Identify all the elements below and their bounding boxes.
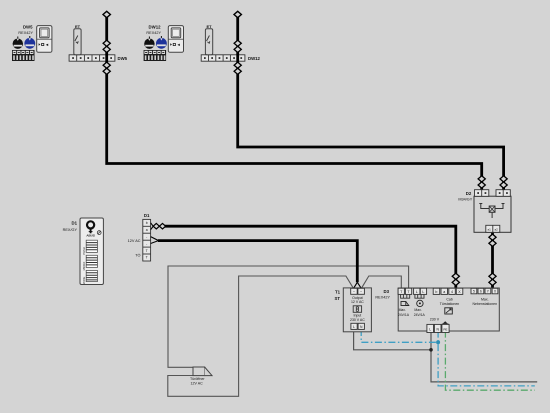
svg-text:DW12: DW12 bbox=[149, 25, 162, 30]
svg-text:a2: a2 bbox=[495, 227, 499, 231]
relay D2 buzzer symbol bbox=[479, 204, 504, 219]
svg-text:D3: D3 bbox=[384, 289, 390, 294]
key symbol bbox=[87, 221, 94, 228]
svg-text:Max.: Max. bbox=[399, 308, 406, 312]
svg-text:◄: ◄ bbox=[45, 42, 49, 47]
svg-text:~: ~ bbox=[360, 290, 362, 294]
wire: N blue dash-dot from T1 to junction bbox=[361, 329, 438, 342]
svg-text:-: - bbox=[146, 235, 147, 239]
terminal strip DW12 bbox=[201, 55, 245, 61]
svg-text:-: - bbox=[146, 242, 147, 246]
screw bbox=[97, 231, 101, 235]
svg-text:D2: D2 bbox=[466, 191, 472, 196]
door opener Türöffner symbol bbox=[193, 367, 212, 376]
cable marker twin diamonds above D2 right bbox=[500, 176, 507, 182]
svg-text:DW12: DW12 bbox=[248, 56, 261, 61]
wire: mains L from T1 to junction bbox=[354, 329, 431, 350]
cable marker twin diamonds above D3 group3 bbox=[489, 273, 496, 279]
svg-text:L: L bbox=[416, 290, 418, 294]
cable marker twin diamonds DW5 below strip bbox=[103, 62, 110, 68]
D3 mains terminals L N PE bbox=[427, 324, 449, 332]
transformer T1 secondary terminals bbox=[351, 288, 365, 294]
cable marker twin diamonds DW12 below strip bbox=[234, 62, 241, 68]
junction dot N bbox=[436, 340, 440, 344]
svg-text:Cab: Cab bbox=[446, 297, 452, 301]
svg-text:Türöffner: Türöffner bbox=[190, 377, 205, 381]
relay D2 top terminals pair 1 bbox=[475, 190, 489, 197]
cable marker diamond top DW5 bbox=[103, 11, 110, 17]
svg-text:PE: PE bbox=[443, 328, 447, 332]
svg-text:L: L bbox=[353, 325, 355, 329]
svg-text:12V AC: 12V AC bbox=[128, 239, 141, 243]
cable DW5 to D2 (thick) bbox=[107, 15, 482, 191]
relay D2 top terminals pair 2 bbox=[496, 190, 510, 197]
svg-text:~: ~ bbox=[353, 290, 355, 294]
svg-text:12 V AC: 12 V AC bbox=[351, 300, 364, 304]
svg-text:Output: Output bbox=[352, 296, 363, 300]
door station DW5 knob black bbox=[13, 37, 23, 49]
cable marker twin diamonds DW12 above strip bbox=[234, 40, 241, 46]
svg-text:ET: ET bbox=[75, 24, 81, 29]
cable marker twin diamonds above D3 group2 bbox=[452, 273, 459, 279]
svg-text:Max.: Max. bbox=[414, 308, 421, 312]
svg-text:T: T bbox=[146, 256, 148, 260]
svg-text:ABUS: ABUS bbox=[86, 233, 95, 237]
slat group 2 bbox=[82, 255, 97, 270]
svg-text:230 V: 230 V bbox=[430, 317, 440, 321]
push button ET2 bbox=[205, 24, 212, 55]
svg-text:T1: T1 bbox=[335, 290, 341, 295]
svg-text:D1: D1 bbox=[144, 213, 150, 218]
relay D2 housing bbox=[474, 196, 511, 232]
svg-text:a: a bbox=[443, 290, 445, 294]
V split into T1 secondary terminals bbox=[353, 282, 361, 288]
svg-text:L: L bbox=[429, 328, 431, 332]
cable marker diamond top DW12 bbox=[234, 11, 241, 17]
module D1 housing bbox=[80, 218, 103, 285]
relay D2 bottom terminals bbox=[486, 225, 500, 232]
cable D1 12V AC to T1 (thick) bbox=[158, 241, 357, 283]
svg-text:DW5: DW5 bbox=[118, 56, 128, 61]
svg-text:REX42Y: REX42Y bbox=[146, 31, 161, 35]
door station DW12 knob black bbox=[144, 37, 154, 49]
svg-text:PUSH: PUSH bbox=[82, 247, 86, 254]
svg-text:ZONE: ZONE bbox=[82, 277, 86, 284]
svg-text:Nebenstationen: Nebenstationen bbox=[473, 302, 498, 306]
svg-text:Türstationen: Türstationen bbox=[440, 302, 460, 306]
wire: L from D3 down and right bbox=[431, 331, 537, 382]
D3 lamp icon bbox=[417, 300, 423, 306]
svg-text:L: L bbox=[422, 290, 424, 294]
svg-text:b: b bbox=[435, 290, 437, 294]
terminal strip DW5 bbox=[69, 55, 115, 61]
svg-text:b: b bbox=[480, 290, 482, 294]
svg-text:REX42Y: REX42Y bbox=[375, 296, 390, 300]
wire: PE green dash-dot from D3 down and right bbox=[445, 331, 534, 391]
svg-text:24V/1A: 24V/1A bbox=[414, 313, 426, 317]
wire: door opener loop inner right (D3 T1 to T1 secondary right) bbox=[361, 276, 401, 289]
wire: N blue from D3 down and right bbox=[438, 331, 535, 386]
D3 terminal group ba4X bbox=[433, 288, 463, 294]
wire: door opener loop outer (D3 T2 to Türöffner top) bbox=[168, 266, 409, 367]
svg-text:5: 5 bbox=[473, 290, 475, 294]
svg-text:D1: D1 bbox=[72, 221, 78, 226]
transformer T1 housing bbox=[343, 288, 371, 332]
door station DW5 knob blue bbox=[24, 36, 35, 49]
door station DW12 front panel bbox=[168, 26, 183, 53]
svg-text:24V/1A: 24V/1A bbox=[398, 313, 410, 317]
svg-text:a1: a1 bbox=[488, 227, 492, 231]
svg-text:MICRO: MICRO bbox=[82, 262, 86, 271]
twisted pair marker at D1 bbox=[151, 223, 154, 230]
svg-text:b: b bbox=[146, 221, 148, 225]
svg-text:M34/GY: M34/GY bbox=[458, 197, 472, 201]
chevron marker at D1 12V AC bbox=[151, 237, 159, 244]
svg-text:REX42Y: REX42Y bbox=[18, 31, 33, 35]
slat group 1 bbox=[82, 240, 97, 254]
svg-text:a: a bbox=[146, 228, 148, 232]
svg-text:DW5: DW5 bbox=[23, 25, 33, 30]
power unit D3 housing bbox=[398, 288, 499, 331]
door station DW12 terminal block bbox=[144, 50, 167, 61]
D3 terminal group 5bYX bbox=[471, 288, 498, 294]
D3 bracket symbols under TT and LL bbox=[401, 295, 424, 299]
svg-text:REX/GY: REX/GY bbox=[63, 228, 78, 232]
cable marker twin diamonds above D2 left bbox=[478, 176, 485, 182]
cable D2 to D3 (thick) bbox=[491, 232, 494, 288]
cable DW12 to D2 (thick) bbox=[238, 15, 504, 191]
cable marker twin diamonds below D2 bbox=[489, 234, 496, 240]
door station DW5 terminal block bbox=[12, 50, 35, 61]
door station DW12 knob blue bbox=[156, 36, 167, 49]
svg-text:4: 4 bbox=[451, 290, 453, 294]
D3 door opener icon bbox=[401, 302, 409, 306]
svg-text:T: T bbox=[146, 249, 148, 253]
svg-text:TÖ: TÖ bbox=[135, 254, 140, 258]
svg-text:◄: ◄ bbox=[177, 42, 181, 47]
svg-text:ST: ST bbox=[335, 296, 341, 301]
svg-text:12V AC: 12V AC bbox=[191, 382, 204, 386]
transformer T1 core symbol bbox=[353, 306, 361, 313]
junction dot L bbox=[429, 348, 433, 352]
cable D1 to D3 (thick) bbox=[164, 226, 456, 288]
svg-text:ET: ET bbox=[207, 24, 213, 29]
slat group 3 bbox=[82, 270, 97, 284]
svg-text:230 V AC: 230 V AC bbox=[350, 318, 365, 322]
push button ET1 bbox=[74, 24, 81, 55]
D3 config icon bbox=[445, 308, 453, 314]
cable marker twin diamonds DW5 above strip bbox=[103, 40, 110, 46]
svg-text:Max.: Max. bbox=[481, 297, 489, 301]
wire: door opener loop inner left (T1 secondary left to Türöffner bottom) bbox=[168, 276, 354, 396]
D3 PE earth symbol bbox=[442, 321, 449, 324]
transformer T1 primary terminals bbox=[351, 323, 365, 329]
D3 terminal group TTLL bbox=[398, 288, 426, 294]
door station DW5 front panel bbox=[37, 26, 52, 53]
